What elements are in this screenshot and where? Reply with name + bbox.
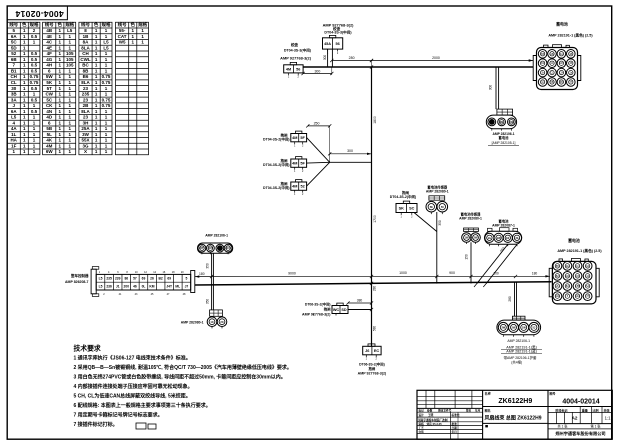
svg-text:1b4: 1b4 [576,295,581,298]
svg-text:4F: 4F [47,51,53,56]
svg-text:日期: 日期 [452,426,458,430]
svg-text:0.5: 0.5 [31,109,38,114]
svg-text:绞盘: 绞盘 [291,42,299,47]
svg-text:B1: B1 [11,68,17,73]
svg-text:蓄电池: 蓄电池 [499,135,510,140]
svg-text:8LA: 8LA [81,109,90,114]
svg-text:王晓: 王晓 [428,413,434,417]
svg-text:4E: 4E [46,45,52,50]
svg-text:2B: 2B [500,120,503,124]
svg-text:年月: 年月 [452,430,458,434]
svg-text:0L: 0L [142,284,146,288]
connector C1 body [291,131,307,148]
svg-text:DT04-3S-3(中间): DT04-3S-3(中间) [324,30,352,35]
svg-text:9000: 9000 [288,272,296,276]
svg-text:350: 350 [205,299,209,305]
svg-text:CH: CH [560,72,564,75]
svg-text:55X: 55X [81,138,89,143]
wire: double drop to connector O [495,67,497,109]
svg-text:2b: 2b [515,236,518,240]
svg-text:[AMP 282105-1]: [AMP 282105-1] [492,141,516,145]
svg-text:DT04-3S-2(中间): DT04-3S-2(中间) [390,194,416,199]
svg-text:CAT: CAT [118,34,127,39]
wire: C3 to junction P [307,162,330,186]
svg-text:AMP 282106-1: AMP 282106-1 [507,339,530,343]
svg-text:280: 280 [372,286,376,292]
connector C3 body [291,180,307,197]
svg-text:B6: B6 [83,74,89,79]
svg-text:0.75: 0.75 [102,80,111,85]
svg-text:整车控制器: 整车控制器 [70,273,89,278]
svg-text:4A: 4A [11,126,18,131]
svg-text:蓄电池: 蓄电池 [556,22,568,27]
svg-text:1:1: 1:1 [605,415,611,420]
svg-text:1F: 1F [11,143,17,148]
connector G body 2-pin [462,228,481,244]
note symbol [136,423,156,429]
svg-text:L5: L5 [99,277,103,281]
svg-text:6A: 6A [11,34,18,39]
svg-text:9A: 9A [586,265,589,268]
svg-text:6W: 6W [46,149,54,154]
svg-text:刘兵 05.3.25: 刘兵 05.3.25 [427,422,443,426]
svg-text:J7: J7 [185,284,189,288]
svg-text:4E: 4E [46,34,52,39]
svg-text:5E: 5E [430,205,433,209]
svg-text:5 CH, CL为低速CAN总线屏蔽双绞线导线, 5米绞距。: 5 CH, CL为低速CAN总线屏蔽双绞线导线, 5米绞距。 [74,393,191,400]
dimension 280 (A drop to main vertical) [330,56,373,62]
svg-text:SK: SK [399,206,405,210]
svg-text:1W: 1W [465,236,469,240]
svg-text:图号: 图号 [550,391,556,396]
svg-text:3W: 3W [501,326,505,330]
svg-text:2B: 2B [83,103,90,108]
svg-text:25A: 25A [81,126,90,131]
svg-text:L5: L5 [103,40,109,45]
svg-text:(共4根): (共4根) [511,360,522,365]
svg-text:1b4: 1b4 [555,295,560,298]
wire: G drop to bottom trunk [470,242,472,283]
svg-text:AMP 282191-1 (黑色) (2.5): AMP 282191-1 (黑色) (2.5) [557,248,602,253]
svg-text:280: 280 [508,296,512,302]
svg-text:69: 69 [167,277,171,281]
svg-text:0.5: 0.5 [31,34,38,39]
svg-text:26: 26 [150,277,154,281]
svg-text:5F: 5F [300,162,305,166]
junction tick top [370,65,373,68]
svg-text:AMP 282080-1: AMP 282080-1 [426,190,449,194]
svg-text:350: 350 [438,220,442,226]
svg-text:A2: A2 [572,415,578,420]
svg-text:AMP 927768-3(2): AMP 927768-3(2) [302,313,331,317]
svg-text:审核: 审核 [419,422,425,426]
svg-text:2000: 2000 [432,56,440,60]
connector L body 4-pin pill [497,316,541,335]
svg-text:23: 23 [83,115,89,120]
connector O AMP 282106-1 3-pin [486,109,516,131]
svg-text:9B: 9B [560,81,563,84]
svg-text:7 用定期号卡箍标记号牌记号标志要求。: 7 用定期号卡箍标记号牌记号标志要求。 [74,412,163,419]
connector B body [284,62,303,78]
svg-text:0C3: 0C3 [226,246,231,250]
svg-text:处数: 处数 [426,409,433,413]
svg-text:4M: 4M [286,67,291,71]
connector J DT06-3S-2 labels [358,362,387,376]
svg-text:300: 300 [489,85,493,91]
connector K body 16-pin [533,45,581,90]
svg-text:100: 100 [493,272,499,276]
svg-text:WC: WC [333,308,340,312]
svg-text:设计: 设计 [419,413,425,417]
svg-text:图名: 图名 [485,407,491,412]
svg-text:1L: 1L [11,132,17,137]
svg-text:标记: 标记 [418,409,425,413]
svg-text:5C: 5C [11,40,18,45]
connector H body 4-pin [485,228,522,247]
svg-text:DT04-3S-2(中间): DT04-3S-2(中间) [263,162,289,167]
svg-text:SD: SD [341,308,347,312]
svg-text:更改文件号: 更改文件号 [438,409,452,413]
svg-text:郑州宇通客车股份有限公司: 郑州宇通客车股份有限公司 [555,430,605,437]
svg-text:0.75: 0.75 [30,74,39,79]
svg-text:阶段标记: 阶段标记 [555,407,567,412]
svg-text:抱闸: 抱闸 [368,366,376,371]
wire: E drop to bottom trunk [436,212,438,284]
connector M body 4-pin pill [198,243,233,254]
svg-text:工艺: 工艺 [419,426,425,430]
svg-text:5W: 5W [46,74,54,79]
wire: trunk down to L (double) [514,282,516,316]
svg-text:4004-02014: 4004-02014 [15,9,63,19]
svg-text:5L: 5L [47,132,53,137]
wire: main bottom harness trunk [195,282,552,285]
svg-text:6A: 6A [11,109,18,114]
svg-text:380: 380 [357,298,363,302]
svg-text:L5: L5 [99,284,103,288]
svg-text:5: 5 [185,277,187,281]
svg-text:1B: 1B [569,53,572,56]
svg-text:技术要求: 技术要求 [74,344,101,353]
svg-text:580: 580 [372,326,376,332]
connector I body [314,303,349,315]
svg-text:风扇线束 总图 ZK6122H9: 风扇线束 总图 ZK6122H9 [485,414,542,421]
svg-text:3B: 3B [11,92,18,97]
svg-text:4G: 4G [46,57,53,62]
svg-text:6B: 6B [11,57,18,62]
svg-text:4M: 4M [46,143,53,148]
svg-text:52: 52 [301,185,305,189]
svg-text:2X: 2X [220,320,223,324]
svg-text:5A: 5A [586,285,589,288]
svg-text:45A: 45A [324,42,331,46]
svg-text:签名: 签名 [466,409,472,413]
svg-text:46: 46 [133,284,137,288]
svg-text:1800: 1800 [373,116,377,124]
wire: main top harness trunk [303,66,533,68]
svg-text:0.5: 0.5 [31,97,38,102]
svg-text:L5: L5 [67,28,73,33]
svg-text:4M: 4M [292,162,297,166]
svg-text:J6: J6 [365,349,369,353]
svg-text:A4T: A4T [559,62,564,65]
svg-text:ML: ML [175,284,180,288]
svg-text:E2: E2 [506,236,510,240]
dimension 380 [346,298,373,304]
svg-text:0C5: 0C5 [208,246,213,250]
svg-text:3 用白色无纬274PVC管或白色胶带缠绕, 导线间距不超过: 3 用白色无纬274PVC管或白色胶带缠绕, 导线间距不超过50mm, 卡箍间距… [74,374,286,381]
svg-text:L5: L5 [11,115,17,120]
svg-text:2W: 2W [512,326,516,330]
svg-text:第 1 张: 第 1 张 [591,424,602,429]
connector N body 2-pin [207,310,227,329]
svg-text:1b4: 1b4 [565,275,570,278]
svg-text:DT04-3S-2(中间): DT04-3S-2(中间) [263,137,289,142]
wire: junction P to main vertical [330,161,372,163]
svg-text:0.5: 0.5 [31,63,38,68]
svg-text:河南宇通客车制造厂改制: 河南宇通客车制造厂改制 [417,418,448,422]
wire: D to E drop (diagonal) [414,213,437,232]
svg-text:C5B: C5B [575,285,580,288]
svg-text:0.5: 0.5 [31,68,38,73]
svg-text:56: 56 [296,67,300,71]
svg-text:X: X [84,149,87,154]
svg-text:4H: 4H [46,63,52,68]
svg-text:105: 105 [66,57,74,62]
svg-text:DT06-3S-2(中间): DT06-3S-2(中间) [305,301,331,306]
svg-text:23: 23 [83,97,89,102]
wire list table [7,22,148,155]
title block text [417,391,611,437]
svg-text:B2: B2 [158,277,162,281]
svg-text:4B: 4B [46,28,53,33]
svg-text:52: 52 [11,51,17,56]
svg-text:4M: 4M [292,185,297,189]
svg-text:4N: 4N [46,109,52,114]
doc number box 4004-02014 (rotated) [7,6,67,20]
svg-text:55-: 55- [119,28,126,33]
svg-text:105: 105 [66,63,74,68]
dimension 300 (B to A drop) [302,67,334,75]
svg-text:900: 900 [449,271,455,275]
connector B AMP 927768-3(2) labels [280,42,312,60]
svg-text:AMP 927768-3(2): AMP 927768-3(2) [358,371,387,375]
connector D body [396,201,417,218]
svg-text:BC: BC [82,63,89,68]
svg-text:4C: 4C [46,40,53,45]
svg-text:1000: 1000 [399,271,407,275]
svg-text:AMP 826208-7: AMP 826208-7 [65,280,89,284]
svg-text:56: 56 [336,42,340,46]
svg-text:蓄电池: 蓄电池 [568,238,580,243]
svg-text:年月: 年月 [475,409,481,413]
svg-text:1W: 1W [497,236,501,240]
connector C2 body [291,157,307,174]
svg-text:300: 300 [314,69,320,73]
svg-text:105: 105 [66,51,74,56]
svg-text:带AMP 282106-1护套: 带AMP 282106-1护套 [504,355,537,360]
dimension 300 (P to main vertical) [328,149,371,155]
wire: C2 to junction P [307,161,330,164]
svg-text:180: 180 [532,271,538,275]
wire: I to main vertical [348,309,372,311]
svg-text:8LA: 8LA [81,45,90,50]
svg-text:5D: 5D [11,45,18,50]
svg-text:AMP 282191-1 (黑色) (2.5): AMP 282191-1 (黑色) (2.5) [548,33,593,38]
svg-text:3W: 3W [82,132,90,137]
svg-text:5T: 5T [47,86,53,91]
dimension chain bottom [195,271,550,278]
svg-text:4B: 4B [551,53,554,56]
svg-text:280: 280 [349,56,355,60]
svg-text:批准: 批准 [452,422,458,426]
svg-text:9A: 9A [560,53,563,56]
svg-text:150: 150 [464,254,468,260]
svg-text:5B: 5B [551,81,554,84]
svg-text:比例: 比例 [592,407,598,412]
svg-text:CK: CK [46,103,53,108]
svg-text:250: 250 [314,121,320,125]
wire: double drop from connector A to trunk [327,49,329,67]
svg-text:4M: 4M [292,136,297,140]
connector I DT06-3S-2 labels [302,301,331,316]
svg-text:AMP 282106-1: AMP 282106-1 [205,234,228,238]
svg-text:0.5: 0.5 [31,57,38,62]
svg-text:标准化: 标准化 [451,413,460,417]
svg-text:69: 69 [142,277,146,281]
svg-text:3G: 3G [82,143,89,148]
svg-text:SC: SC [409,206,415,210]
junction tick bottom [370,282,373,285]
svg-text:5K: 5K [46,80,53,85]
svg-text:KM: KM [149,284,154,288]
connector L labels [504,339,537,364]
svg-text:会签: 会签 [419,430,425,434]
connector E body 2-pin [426,196,448,214]
svg-text:共 1 张: 共 1 张 [558,424,569,429]
svg-text:23: 23 [83,86,89,91]
svg-text:8A: 8A [83,40,90,45]
svg-text:4004-02014: 4004-02014 [562,398,599,405]
svg-text:2 采用QB—B—Sn镀锡铜线, 耐温105℃, 符合QC/: 2 采用QB—B—Sn镀锡铜线, 耐温105℃, 符合QC/T 730—2005… [74,364,292,371]
svg-text:0.75: 0.75 [102,74,111,79]
svg-text:1W: 1W [522,326,526,330]
svg-text:5B: 5B [46,126,53,131]
svg-text:235: 235 [82,92,90,97]
svg-text:350: 350 [205,263,209,269]
technical notes 技术要求 [74,344,292,429]
svg-text:1X: 1X [210,320,213,324]
title block [417,390,612,439]
svg-text:AMP 927768-3(2): AMP 927768-3(2) [280,55,312,60]
svg-text:3A: 3A [11,97,18,102]
connector K2 body 16-pin [549,259,599,304]
svg-text:4E: 4E [566,265,569,268]
svg-text:8B: 8B [83,68,90,73]
svg-text:1 通讯字库执行《JS06-127 电线束技术条件》标准。: 1 通讯字库执行《JS06-127 电线束技术条件》标准。 [74,355,191,362]
svg-text:CH: CH [10,74,17,79]
svg-text:AMP 282087-1: AMP 282087-1 [492,223,515,227]
svg-text:抱闸: 抱闸 [323,306,331,311]
svg-text:200: 200 [124,284,130,288]
svg-text:236: 236 [106,284,112,288]
svg-text:CW: CW [45,92,53,97]
svg-text:0.5: 0.5 [31,86,38,91]
svg-text:1700: 1700 [373,215,377,223]
connector A AMP 927768-3(2) labels [323,22,355,34]
svg-text:235: 235 [106,277,112,281]
svg-text:8LA: 8LA [81,80,90,85]
connector A body [323,35,343,55]
svg-text:共张: 共张 [603,407,610,412]
svg-text:W5: W5 [119,40,126,45]
svg-text:1B: 1B [83,34,90,39]
svg-text:CB: CB [510,120,514,124]
svg-text:DT: DT [200,246,204,250]
svg-text:0.75: 0.75 [102,97,111,102]
svg-text:300: 300 [347,149,353,153]
svg-text:DT04-3S-2(中间): DT04-3S-2(中间) [263,185,289,190]
svg-text:0.75: 0.75 [30,80,39,85]
svg-text:4 内部接插件连接处端子压接应牢固可靠无松动现象。: 4 内部接插件连接处端子压接应牢固可靠无松动现象。 [74,383,193,390]
svg-text:CL: CL [11,80,17,85]
svg-text:6 配线规格: 本图表上一般规格主要求事项第三十条执行要求。: 6 配线规格: 本图表上一般规格主要求事项第三十条执行要求。 [74,402,211,409]
svg-text:名称: 名称 [485,391,491,396]
svg-text:HA: HA [10,138,17,143]
svg-text:57: 57 [133,277,137,281]
svg-text:AMP 282080-1: AMP 282080-1 [459,216,482,220]
svg-text:EC: EC [374,349,380,353]
wire: H diagonals to bottom trunk [477,244,508,283]
wire: main vertical branch [371,67,373,346]
svg-text:J1: J1 [116,284,120,288]
svg-text:DT04-3S-3(中间): DT04-3S-3(中间) [284,48,312,53]
svg-text:4K: 4K [46,138,53,143]
svg-text:CH: CH [82,51,89,56]
svg-text:5F: 5F [300,136,305,140]
svg-text:30: 30 [11,86,17,91]
wire: C1 to junction P [307,138,330,163]
svg-text:AMP 282080-1: AMP 282080-1 [181,321,204,325]
svg-text:7 接插件标记打标。: 7 接插件标记打标。 [74,421,118,428]
svg-text:ZK6122H9: ZK6122H9 [498,398,532,405]
svg-text:0.5: 0.5 [31,51,38,56]
svg-text:300: 300 [323,55,327,61]
svg-text:J4T: J4T [166,284,172,288]
svg-text:L5: L5 [103,45,109,50]
wire: M down to N (double, crossing trunk) [211,253,213,310]
dimension 2000 (main vertical to battery connector) [370,56,533,67]
svg-text:重量: 重量 [582,407,588,412]
svg-text:4D: 4D [46,115,53,120]
svg-text:3H: 3H [83,120,89,125]
svg-text:239: 239 [115,277,121,281]
svg-text:0.75: 0.75 [102,103,111,108]
svg-text:86: 86 [124,277,128,281]
svg-text:CWL: CWL [80,57,90,62]
connector J body [363,344,381,361]
svg-text:5C: 5C [46,97,53,102]
connector ECU body [91,267,195,297]
svg-text:2W: 2W [474,236,478,240]
dimension 250 (C boxes to junction P) [306,121,331,162]
svg-text:180: 180 [199,272,205,276]
